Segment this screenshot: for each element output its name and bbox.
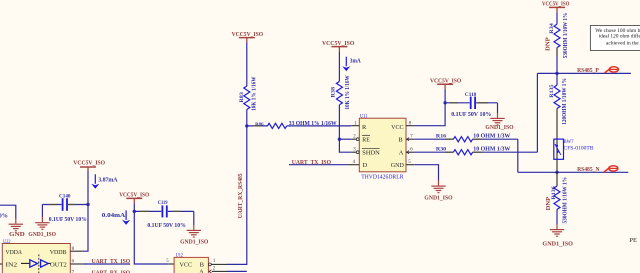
surge arrester BW7 CFS-0100TB: [554, 139, 594, 172]
net label RS485_N: [577, 166, 600, 173]
svg-text:10K 1% 1/16W: 10K 1% 1/16W: [252, 77, 258, 111]
resistor R136 530OHM DNP: [546, 172, 568, 224]
svg-text:GND1_ISO: GND1_ISO: [424, 195, 452, 202]
wire U12 pin 2: [227, 270, 247, 272]
net label RS485_P: [577, 67, 599, 74]
net label PE: [629, 237, 637, 244]
svg-text:0.1UF 50V 10%: 0.1UF 50V 10%: [451, 111, 491, 118]
svg-text:VCC5V_ISO: VCC5V_ISO: [430, 77, 461, 84]
svg-text:DNP: DNP: [546, 196, 552, 210]
wire to off-sheet capacitor (left edge): [0, 205, 16, 219]
svg-text:GND1_ISO: GND1_ISO: [485, 124, 513, 131]
svg-text:C119: C119: [158, 200, 168, 206]
svg-text:VCC5V_ISO: VCC5V_ISO: [322, 40, 354, 47]
wire net UART_RX_ISO (from U22 pin 7): [92, 270, 131, 273]
wire VCC bar to junction: [444, 89, 446, 103]
ground GND1_ISO (R136): [542, 224, 573, 248]
svg-text:VDDA: VDDA: [6, 249, 23, 256]
svg-text:UART_RX_ISO: UART_RX_ISO: [92, 270, 131, 273]
svg-text:R135: R135: [549, 84, 555, 98]
svg-text:0.04mA: 0.04mA: [102, 212, 126, 219]
power VCC5V_ISO (R83): [232, 31, 264, 43]
capacitor C119: [134, 200, 194, 229]
ground GND1_ISO (C119): [180, 225, 208, 246]
svg-text:U22: U22: [3, 240, 11, 245]
capacitor C118: [445, 92, 497, 118]
wire to U11 pin 2: [339, 138, 356, 140]
svg-text:A: A: [199, 268, 204, 273]
svg-text:B: B: [398, 136, 402, 143]
svg-text:U11: U11: [360, 114, 368, 119]
svg-text:120OHM 1/10W 1%: 120OHM 1/10W 1%: [562, 78, 568, 125]
svg-text:IN2: IN2: [6, 261, 18, 268]
wire net RS485_P: [537, 72, 631, 74]
svg-text:THVD1426DRLR: THVD1426DRLR: [361, 174, 403, 180]
wire net UART_TX_ISO (to U11 pin 4): [289, 159, 359, 166]
svg-text:R: R: [362, 124, 367, 131]
junction R34/RS485_P: [555, 72, 558, 75]
junction C118 tap: [443, 101, 446, 104]
note box: [590, 26, 640, 51]
resistor R86 33 OHM: [247, 120, 351, 129]
IC U12 transceiver: [166, 254, 227, 273]
svg-text:10K 1% 1/16W: 10K 1% 1/16W: [345, 75, 351, 109]
svg-text:0.1UF 50V 10%: 0.1UF 50V 10%: [147, 222, 185, 229]
svg-text:PE: PE: [629, 237, 637, 244]
svg-text:33 OHM 1% 1/16W: 33 OHM 1% 1/16W: [289, 120, 338, 127]
svg-text:3.87mA: 3.87mA: [98, 177, 118, 184]
svg-text:RS485_P: RS485_P: [577, 67, 599, 74]
svg-text:RS485_N: RS485_N: [577, 166, 600, 173]
svg-text:GND1_ISO: GND1_ISO: [180, 239, 208, 246]
wire B to RS485_N line: [517, 139, 519, 172]
svg-text:VCC: VCC: [391, 124, 404, 131]
current arrow 3.87mA: [91, 174, 118, 189]
resistor R135 120OHM termination: [549, 73, 568, 124]
svg-text:achieved in the la: achieved in the la: [606, 40, 640, 46]
wire R38 to U11 pin 2 junction: [338, 105, 340, 139]
capacitor C140: [42, 193, 88, 223]
junction R38/RE: [338, 138, 341, 141]
junction C119 tap: [133, 210, 136, 213]
wire VCC to R83: [246, 42, 248, 86]
wire VCC to U22 pin 8: [83, 171, 88, 251]
resistor R30 10 OHM (A line): [406, 146, 537, 155]
svg-text:UART_RX_RS485: UART_RX_RS485: [237, 173, 244, 218]
wire VCC to U12 pin 5: [134, 203, 174, 264]
offsheet connector RS485_P: [605, 67, 619, 73]
power VCC5V_ISO (C119/U12): [119, 191, 149, 203]
svg-text:SHDN: SHDN: [362, 149, 380, 156]
wire net UART_TX_ISO (from U22 pin 6): [83, 258, 130, 265]
wire to U11 pin 3: [339, 139, 356, 152]
ground GND1_ISO (U11 pin5): [424, 181, 452, 202]
wire U11 pin 5 to ground: [406, 165, 439, 181]
junction R83/R86: [245, 124, 248, 127]
resistor R16 10 OHM (B line): [406, 133, 518, 142]
wire VCC to R34: [556, 12, 558, 24]
offsheet connector RS485_N: [604, 166, 618, 172]
svg-text:C118: C118: [465, 92, 477, 98]
wire A to RS485_P line: [536, 73, 538, 152]
value label 10% (cut): [0, 213, 8, 220]
resistor R38 10K: [331, 75, 351, 109]
wire U11 pin 8 to VCC: [406, 103, 445, 126]
junction C140/VDDB: [86, 203, 89, 206]
current arrow 3mA: [342, 57, 361, 71]
net label UART_RX_RS485: [237, 173, 244, 218]
svg-text:R34: R34: [549, 23, 555, 34]
svg-text:GND: GND: [9, 231, 25, 238]
svg-text:0.1UF 50V 10%: 0.1UF 50V 10%: [49, 216, 87, 223]
svg-text:530OHM 1/10W 1%: 530OHM 1/10W 1%: [563, 13, 569, 58]
ground GND: [9, 219, 26, 239]
IC U22 digital isolator: [0, 240, 83, 273]
svg-text:10 OHM 1/3W: 10 OHM 1/3W: [473, 133, 511, 140]
svg-text:R38: R38: [331, 87, 337, 98]
svg-text:GND1_ISO: GND1_ISO: [28, 231, 56, 238]
svg-text:R30: R30: [436, 148, 447, 153]
svg-text:VCC5V_ISO: VCC5V_ISO: [542, 1, 570, 8]
svg-text:D: D: [363, 162, 368, 169]
ground GND1_ISO (C140): [28, 217, 56, 238]
svg-text:VCC5V_ISO: VCC5V_ISO: [119, 191, 149, 198]
svg-text:VCC5V_ISO: VCC5V_ISO: [73, 160, 105, 167]
svg-text:U12: U12: [176, 254, 184, 259]
svg-text:R16: R16: [436, 135, 447, 140]
wire net UART_RX_RS485 (U12 pin1 up to R86 junction): [227, 126, 247, 265]
power VCC5V_ISO (VDDB): [73, 160, 105, 172]
svg-text:ideal 120 ohm differen: ideal 120 ohm differen: [599, 33, 640, 40]
svg-text:OUT2: OUT2: [50, 261, 67, 268]
svg-text:GND1_ISO: GND1_ISO: [542, 241, 573, 248]
resistor R34 530OHM DNP: [545, 13, 568, 58]
power VCC5V_ISO (C118): [430, 77, 461, 89]
svg-text:UART_TX_ISO: UART_TX_ISO: [92, 258, 131, 265]
svg-text:BW7: BW7: [564, 139, 574, 145]
svg-text:R86: R86: [255, 121, 264, 126]
svg-text:GND: GND: [391, 162, 404, 169]
svg-text:VCC: VCC: [180, 262, 193, 269]
power VCC5V_ISO (R34): [542, 1, 570, 13]
svg-text:10%: 10%: [0, 213, 8, 220]
power VCC5V_ISO (R38): [322, 40, 354, 52]
svg-text:10 OHM 1/3W: 10 OHM 1/3W: [473, 146, 511, 153]
ground GND1_ISO (C118): [485, 113, 513, 131]
svg-text:UART_TX_ISO: UART_TX_ISO: [292, 159, 331, 166]
wire VCC to R38: [338, 51, 340, 81]
svg-text:A: A: [399, 149, 404, 156]
resistor R83 10K: [239, 77, 258, 111]
wire R34 to RS485_P: [556, 48, 558, 74]
svg-text:530OHM 1/10W 1%: 530OHM 1/10W 1%: [563, 177, 569, 224]
svg-text:RE: RE: [362, 136, 370, 143]
IC U11 THVD1426DRLR: [351, 114, 413, 180]
svg-text:DNP: DNP: [545, 37, 551, 51]
wire R135 to BW7: [556, 109, 558, 140]
junction BW7/RS485_N: [555, 171, 558, 174]
svg-text:3mA: 3mA: [350, 57, 361, 64]
current arrow 0.04mA: [102, 210, 130, 225]
svg-text:VDDB: VDDB: [50, 249, 67, 256]
svg-text:VCC5V_ISO: VCC5V_ISO: [232, 31, 264, 38]
wire net RS485_N: [518, 171, 629, 173]
svg-text:C140: C140: [59, 193, 71, 199]
svg-text:CFS-0100TB: CFS-0100TB: [564, 146, 594, 152]
svg-text:R83: R83: [239, 92, 245, 103]
wire R83 to junction: [246, 110, 248, 126]
